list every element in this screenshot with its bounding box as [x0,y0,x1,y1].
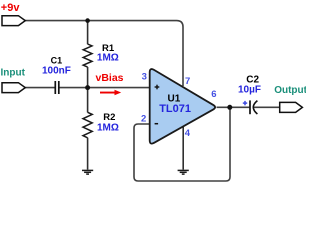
svg-text:1MΩ: 1MΩ [97,123,119,134]
vBias arrow [100,90,121,96]
op-amp U1 [150,69,215,144]
svg-text:C1: C1 [51,55,63,65]
ground (R2) [82,170,93,174]
svg-text:+9v: +9v [1,2,21,14]
wire: R2 to ground [87,138,89,170]
wire: +9v top rail to pin 7 [25,21,183,86]
wire: pin 4 to ground [182,127,184,170]
wire: op-amp output to C2 [217,106,250,108]
wire: input to C1 [25,87,54,89]
svg-text:3: 3 [142,71,147,82]
svg-text:1MΩ: 1MΩ [97,53,119,64]
C2 plus mark [243,101,247,105]
connector Input [2,83,25,93]
svg-text:4: 4 [185,128,191,139]
resistor R2 [83,112,92,138]
wire: feedback loop pin 2 to output node [134,107,230,181]
node: output junction [227,105,232,110]
wire: R1 bottom to vBias [87,67,89,88]
svg-text:10µF: 10µF [238,85,261,96]
connector Output [280,102,303,112]
svg-text:Input: Input [1,68,26,79]
capacitor C2 (polarized) [249,100,251,114]
node: +9v / R1 junction [85,18,90,23]
capacitor C1 [55,81,59,94]
wire: C1 to vBias node to pin 3 [59,87,149,89]
svg-text:100nF: 100nF [42,66,71,77]
svg-text:2: 2 [141,114,146,125]
svg-text:Output: Output [274,85,306,96]
svg-text:7: 7 [185,76,190,87]
resistor R1 [83,44,92,67]
connector +9v [2,16,25,26]
ground (op-amp pin 4) [178,170,189,174]
svg-text:vBias: vBias [96,72,124,84]
op-amp minus input mark [155,123,159,125]
op-amp plus input mark [155,85,160,90]
svg-text:6: 6 [211,89,216,100]
wire: R1 top [87,21,89,45]
svg-text:R2: R2 [103,112,115,123]
wire: C2 to output connector [254,106,280,108]
svg-text:TL071: TL071 [159,103,191,115]
wire: vBias to R2 [87,88,89,113]
node vBias junction [85,85,90,90]
